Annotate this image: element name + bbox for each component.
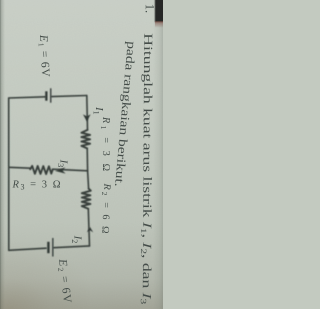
current arrow I2 (points up along wire) — [87, 227, 93, 232]
battery E2 (short thick negative plate) — [47, 242, 49, 253]
paper background — [0, 0, 163, 309]
resistor R3 zigzag — [30, 166, 52, 174]
black bar top-right — [155, 0, 165, 22]
left page edge shading — [0, 0, 5, 309]
current arrow I1 (points down along wire) — [83, 114, 91, 121]
wire right (top of circuit in reading orientation) — [87, 96, 90, 246]
battery E1 (short thick negative plate) — [45, 91, 47, 100]
resistor R1 zigzag — [81, 130, 90, 149]
wire middle (R3 branch) — [9, 167, 88, 171]
battery E2 long thin positive plate — [52, 238, 53, 257]
paper grain overlay — [0, 0, 163, 309]
current arrow I3 (points left along wire) — [55, 167, 66, 173]
resistor R2 zigzag — [82, 189, 91, 209]
wire top (left side of circuit in reading orientation) — [9, 96, 87, 99]
warm shadow bottom-left corner — [0, 0, 1, 1]
battery E1 long thin positive plate — [50, 88, 51, 102]
right column shading — [153, 0, 163, 309]
wire bottom (right side of circuit in reading orientation) — [9, 246, 90, 250]
wire left (bottom of circuit in reading orientation) — [8, 98, 10, 250]
